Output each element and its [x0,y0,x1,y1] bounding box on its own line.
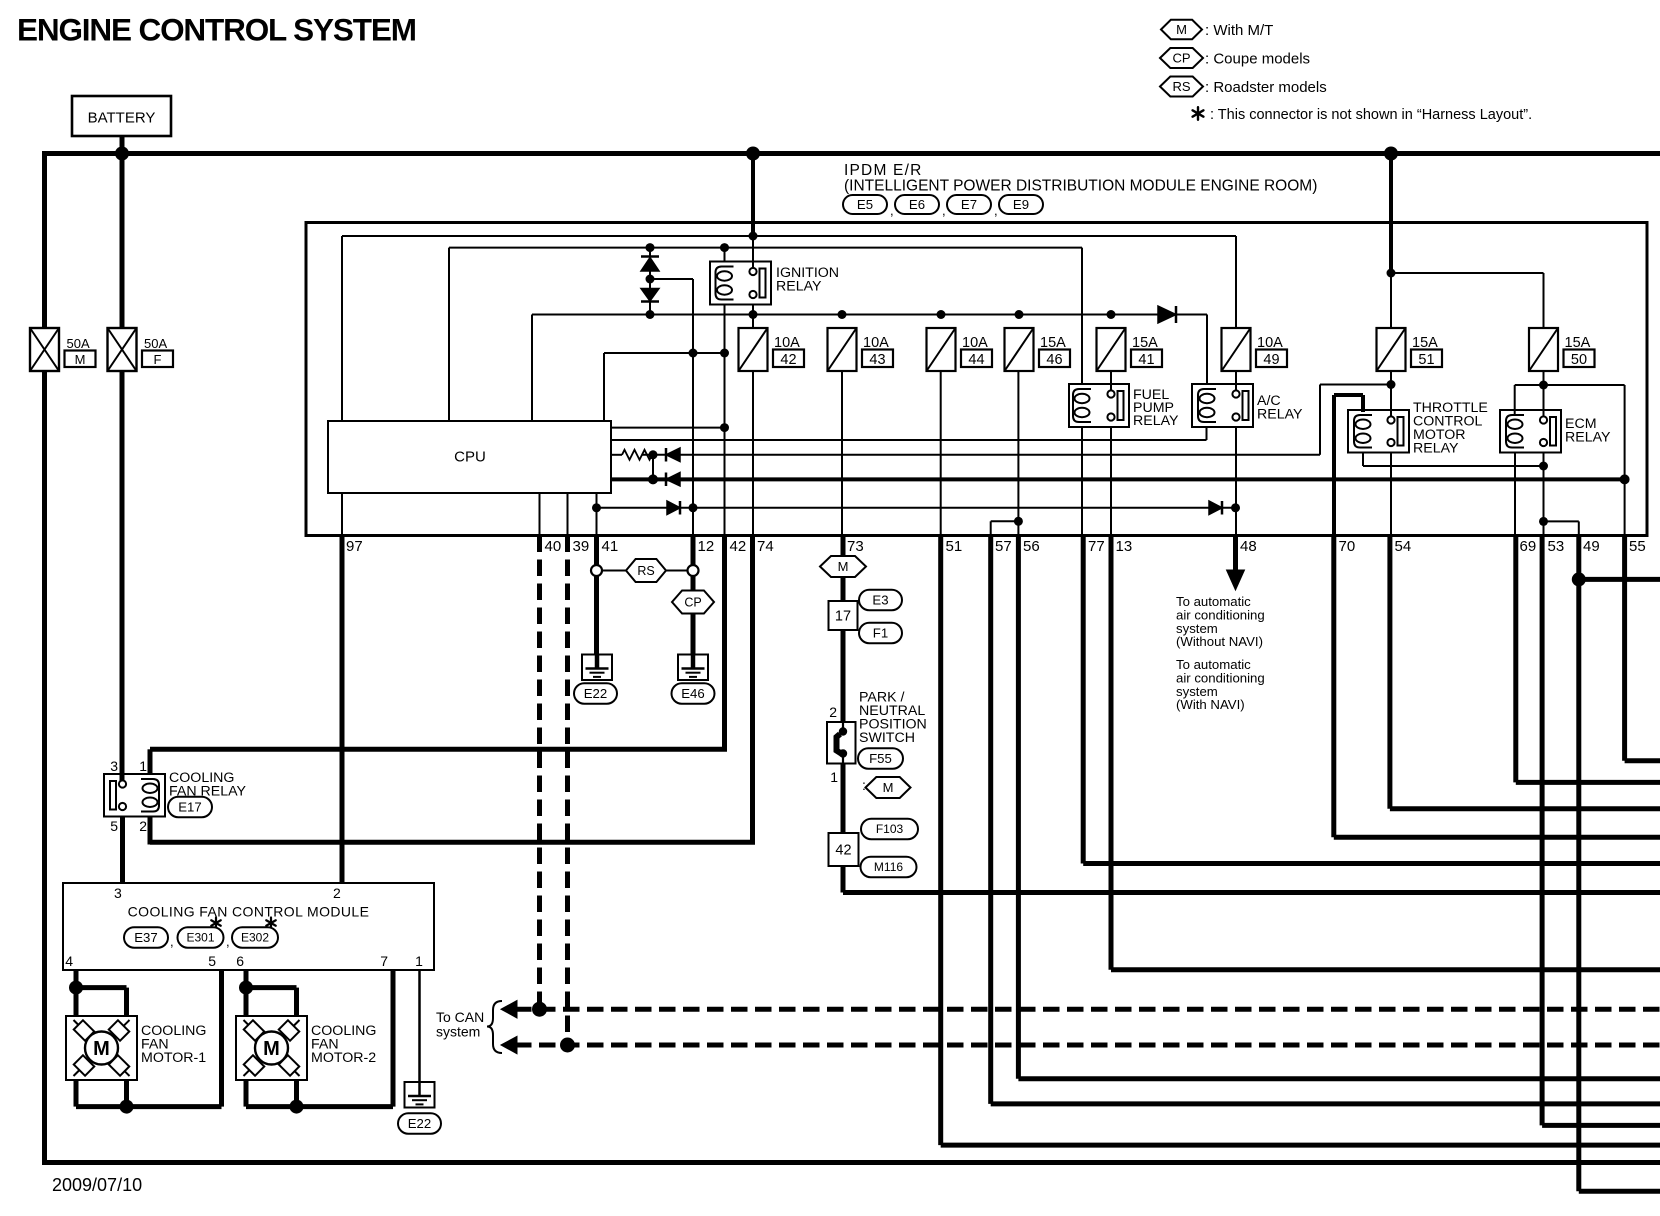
node row A junction pin42 column [720,423,729,432]
wire line2 horizontal y=247.6 [449,247,1082,249]
svg-text:,: , [942,203,946,218]
wire CPU row C with resistor [611,454,622,456]
svg-text:57: 57 [995,538,1012,555]
svg-text:system: system [436,1024,480,1040]
wire bottom loop to right edge [42,1160,1660,1165]
wire pin 42 to cooling fan relay coil top [722,536,727,750]
cooling fan motor 2 box [236,1016,307,1080]
throttle control motor relay box [1348,410,1409,453]
wire module pin 1 to ground E22 (lower) [418,970,421,1082]
svg-text:50: 50 [1571,352,1587,368]
fuse 49 10A [1222,328,1251,371]
wire pin55 column from fuse50 line [1624,385,1626,536]
svg-text:97: 97 [346,538,363,555]
wire line2 left drop to CPU top [448,248,450,421]
svg-text:RELAY: RELAY [1133,413,1179,429]
legend hexagon M [1161,20,1202,40]
svg-text:F103: F103 [876,822,904,836]
ignition relay box [710,262,771,305]
wire pin 13 drop and right [1109,536,1114,970]
svg-text:17: 17 [835,609,851,625]
svg-text:49: 49 [1263,352,1279,368]
node line3 junction fuse43 [838,310,847,319]
svg-text:SWITCH: SWITCH [859,730,915,746]
node line3 junction fuse41 [1107,310,1116,319]
svg-text:41: 41 [602,538,619,555]
CAN line lower dashed [515,1043,1660,1048]
diode on row D (pointing left) [666,473,680,487]
IPDM E/R box [306,223,1647,536]
svg-text:IPDM E/R: IPDM E/R [844,162,923,179]
wire pin 40 dashed CAN [537,536,542,1010]
svg-text:70: 70 [1339,538,1356,555]
node row D junction right at pin 55 column [1620,474,1630,484]
svg-text:2009/07/10: 2009/07/10 [52,1175,142,1195]
connector E6 [895,195,939,214]
CAN line upper arrow [501,1001,517,1019]
wire line2 right drop to fuel pump relay coil [1081,248,1083,384]
wire CPU pin41 stub to row E [596,493,598,536]
CAN line upper dashed [515,1007,1660,1012]
svg-text:50A: 50A [67,336,90,351]
svg-text:54: 54 [1395,538,1412,555]
wire ECM coil feed [1514,385,1516,416]
wire battery drop to fusible link F [120,154,125,329]
svg-text:E7: E7 [961,197,977,212]
svg-text:M116: M116 [874,860,903,874]
svg-text:44: 44 [968,352,984,368]
CAN line lower arrow [501,1036,517,1054]
svg-text:E46: E46 [681,686,704,701]
node junction fuse50 branch [1387,269,1396,278]
connector F55 [858,748,903,769]
wire A/C relay contact bottom to pin 48 [1235,427,1237,536]
fuse 46 15A [1005,328,1034,371]
svg-text:BATTERY: BATTERY [88,110,156,127]
wire pin 49 drop with branch [1576,536,1581,1192]
svg-text:E22: E22 [584,686,607,701]
svg-text:51: 51 [1418,352,1434,368]
wire pin 57 drop and right [988,536,993,1104]
connector F1 [859,623,902,644]
wire ECM contact feed [1543,385,1545,417]
svg-text:M: M [75,352,86,367]
diode on line3 (to A/C relay coil) [1158,306,1176,323]
wire pin 41 to ground E22 [594,536,599,566]
svg-text:12: 12 [698,538,715,555]
svg-text:7: 7 [380,953,388,969]
wire ECM coil bottom to pin 69 [1514,453,1516,536]
connector E9 [999,195,1043,214]
node line1 junction x=753 [749,232,758,241]
wire line3 left drop to CPU top [531,315,533,422]
svg-text:74: 74 [757,538,774,555]
wire ignition relay contact top pin [752,236,754,268]
wire ignition relay contact bottom to fuse 42 [752,305,754,329]
node line2 junction diode chain top [646,243,655,252]
node junction throttle coil line [1539,462,1548,471]
svg-text:RELAY: RELAY [1257,407,1303,423]
A/C relay box [1192,384,1253,427]
svg-text:49: 49 [1583,538,1600,555]
connector joint on pin 41 wire [591,565,602,576]
connector E7 [947,195,991,214]
svg-text:43: 43 [869,352,885,368]
svg-text:MOTOR-1: MOTOR-1 [141,1050,206,1066]
legend note asterisk [1197,107,1199,120]
svg-text:(Without NAVI): (Without NAVI) [1176,634,1263,649]
svg-text:,: , [890,203,894,218]
svg-text:3: 3 [114,885,122,901]
connector F103 [861,819,918,840]
svg-text:CPU: CPU [454,449,486,466]
cooling fan motor 2 symbol [244,1020,258,1034]
node CAN junction pin 40 [532,1002,547,1017]
wire CPU pin 97 stub [341,493,343,536]
node bus junction at throttle/ecm feed [1384,147,1398,161]
svg-text:2: 2 [139,818,147,834]
svg-text:M: M [1176,22,1187,37]
svg-text:6: 6 [236,953,244,969]
diode chain upper diode (cathode up) [649,248,651,256]
svg-text:50A: 50A [144,336,167,351]
svg-text:E3: E3 [872,593,888,608]
node y353 junction pin12 column [689,349,698,358]
svg-text:46: 46 [1046,352,1062,368]
connector E5 [843,195,887,214]
wire fuel pump relay coil bottom to pin 77 [1081,427,1083,536]
wire fuse 49 output to A/C relay contact [1235,371,1237,390]
ground E22 (upper) [582,655,612,681]
wire fuse 43 output to pin 73 [841,371,843,536]
svg-text:41: 41 [1138,352,1154,368]
power bus [42,151,1660,156]
wire pin 12 to CP hexagon and ground E46 [691,536,696,566]
svg-text:5: 5 [208,953,216,969]
svg-text:2: 2 [333,885,341,901]
node junction pin 49 tap [1539,517,1548,526]
svg-text:CP: CP [1172,51,1190,66]
wire motor 2 to module pin 7 [244,1080,249,1107]
wire connector 17 to park/neutral switch [841,630,846,722]
svg-text:1: 1 [139,758,147,774]
svg-text:53: 53 [1548,538,1565,555]
svg-text:RS: RS [637,564,654,578]
wire pin 55 drop and right [1622,536,1627,761]
diode on row E (pointing right) [667,501,680,515]
wire diode chain mid branch to pin12 column [650,278,693,280]
wire line1 left drop to CPU top [341,236,343,421]
svg-text:: Coupe models: : Coupe models [1205,51,1310,68]
wire fuse 50 output line y=385 [1543,371,1545,385]
hexagon RS link [602,570,627,572]
svg-text:RELAY: RELAY [1413,441,1459,457]
wire ignition relay coil bottom [724,305,726,354]
wire fusible link F down to cooling fan relay pin 3 [120,371,125,781]
cooling fan relay box [104,774,165,817]
svg-text:E9: E9 [1013,197,1029,212]
wire fuel pump relay contact bottom to pin 13 [1110,427,1112,536]
wire motor 1 to module pin 5 [74,1080,79,1107]
svg-text:F1: F1 [873,626,888,641]
svg-text:13: 13 [1116,538,1133,555]
resistor on row C [622,450,652,460]
svg-text:E302: E302 [241,931,269,945]
cooling fan motor 1 symbol [74,1020,88,1034]
svg-text:E5: E5 [857,197,873,212]
wire line1 horizontal y=236 [342,235,1236,237]
wire to connector square 17 [841,577,846,601]
svg-text:3: 3 [110,758,118,774]
wire pin 69 drop and right [1513,536,1518,783]
svg-text:,: , [170,934,174,949]
connector M116 [861,857,917,878]
wire pin 39 dashed CAN [565,536,570,1046]
wire pin57 branch [991,520,1019,522]
cooling fan motor 1 box [66,1016,137,1080]
svg-text:,: , [226,934,230,949]
svg-text::: : [862,777,866,793]
svg-text:(INTELLIGENT POWER DISTRIBUTIO: (INTELLIGENT POWER DISTRIBUTION MODULE E… [844,178,1317,195]
svg-text:5: 5 [110,818,118,834]
connector square 17 [829,601,858,630]
node bus-battery junction [115,147,129,161]
connector E3 [859,590,902,611]
svg-text:,: , [994,203,998,218]
wire pin 73 segment to M hexagon [841,536,846,558]
svg-text:: Roadster models: : Roadster models [1205,79,1327,96]
fuse 44 10A [927,328,956,371]
svg-text:2: 2 [829,704,837,720]
connector joint on pin 12 wire [688,565,699,576]
wire pin 54 drop and right [1387,536,1392,809]
node bus junction at ignition feed [746,147,760,161]
connector E46 [672,683,715,704]
diode on row E right (to pin 48) [1209,501,1222,515]
svg-text:M: M [838,559,849,574]
fuse 42 10A [739,328,768,371]
node row E junction pin12 [689,503,698,512]
svg-text:E17: E17 [178,800,201,815]
node row D junction left [648,474,658,484]
wire pin 74 to cooling fan relay coil bottom [750,536,755,843]
svg-text:39: 39 [573,538,590,555]
wire module pin 6 to motor 2 [244,970,249,1016]
connector E22 (lower) [398,1113,441,1134]
wire pin 51 drop and right [938,536,943,1146]
node CAN junction pin 39 [560,1038,575,1053]
svg-text:42: 42 [835,843,851,859]
svg-text:MOTOR-2: MOTOR-2 [311,1050,376,1066]
svg-text:RS: RS [1172,79,1190,94]
wire fuse51 junction to row C corner [1320,384,1391,386]
svg-text:E22: E22 [408,1116,431,1131]
battery box [72,96,171,136]
wire fuse 46 output to pin 56 [1017,371,1019,536]
fuse 51 15A [1377,328,1406,371]
svg-text:M: M [263,1038,280,1060]
cooling fan control module box [63,883,434,970]
wire cooling fan relay contact bottom to module pin 3 [120,817,125,884]
svg-text:F55: F55 [869,751,892,766]
wire branch to fuse 50 [1391,272,1544,274]
wire battery to bus [120,136,125,154]
hexagon M on pin 73 wire [820,556,866,577]
wire row C-D link [652,455,654,480]
wire pin 53 drop and right [1540,536,1545,1126]
connector E301 with asterisk [215,918,217,929]
wire fuse 42 output to pin 74 [752,371,754,536]
wire ignition relay coil top pin [724,248,726,262]
wire fuse 41 output to fuel pump relay contact [1110,371,1112,390]
node diode chain mid junction [646,275,655,284]
svg-text:42: 42 [780,352,796,368]
svg-text:77: 77 [1088,538,1105,555]
fusible link F 50A [108,328,137,371]
svg-text:M: M [883,780,894,795]
svg-text:1: 1 [830,769,838,785]
connector E37 [124,927,168,948]
wire y=353 horizontal to CPU top [604,352,725,354]
svg-text:F: F [154,352,162,367]
svg-text:: With M/T: : With M/T [1205,22,1273,39]
node line3 junction fuse42/ignition contact [749,310,758,319]
wire throttle relay coil feed elbow from pin 70 [1332,395,1336,536]
svg-text:ENGINE CONTROL SYSTEM: ENGINE CONTROL SYSTEM [17,12,416,48]
svg-text:40: 40 [545,538,562,555]
svg-text:51: 51 [946,538,963,555]
svg-text:RELAY: RELAY [1565,430,1611,446]
wire park/neutral switch to connector square 42 [841,764,846,834]
wire throttle relay contact bottom to pin 54 [1390,453,1392,536]
wire pin12 column inside box [692,353,694,536]
wire ignition coil bottom to pin 42 exit [724,353,726,536]
wire fuse51 feed [1390,273,1392,328]
svg-text:4: 4 [65,953,73,969]
node line3 junction fuse46 [1015,310,1024,319]
svg-text:E6: E6 [909,197,925,212]
wire module pin 4 to motor 1 [74,970,79,1016]
diode chain lower diode (cathode down) [649,279,651,288]
wire A/C relay coil bottom to row B [1206,427,1208,440]
wire pin 48 to A/C arrow [1233,536,1238,573]
legend hexagon CP [1160,48,1203,68]
wire line3 horizontal y=314.5 [532,314,1207,316]
svg-text:42: 42 [730,538,747,555]
wire CPU pin 40 stub [539,493,541,536]
wire CPU row A [611,427,725,429]
wire CPU row B to A/C coil [611,439,1207,441]
svg-text:: This connector is not shown: : This connector is not shown in “Harnes… [1210,107,1532,123]
svg-text:COOLING FAN CONTROL MODULE: COOLING FAN CONTROL MODULE [128,904,370,920]
wire pin 77 drop and right [1081,536,1086,864]
wire pin 70 drop and right [1331,536,1336,838]
wire CPU row E [597,507,1236,509]
node row E junction pin48 column [1231,503,1240,512]
wire line1 right drop to fuse 49 [1235,236,1237,328]
connector E17 [168,797,212,818]
fuel pump relay box [1069,384,1129,427]
node pin57 tap junction [1014,517,1023,526]
svg-text:RELAY: RELAY [776,279,822,295]
CPU box [328,421,611,493]
wire pin57 tap from fuse46 column [940,371,942,536]
svg-text:69: 69 [1520,538,1537,555]
fuse 43 10A [828,328,857,371]
wire connector 42 down and right to edge [841,866,846,893]
ground E22 (lower) [405,1082,435,1108]
fuse 41 15A [1097,328,1126,371]
park/neutral position switch box [827,722,856,764]
node fuse51 output junction [1387,380,1396,389]
wire pin 56 drop and right [1016,536,1021,1079]
wire CPU row D thick [611,477,1625,481]
svg-text:48: 48 [1240,538,1257,555]
wire ECM contact bottom to pin 53 [1543,453,1545,536]
svg-text:CP: CP [684,595,701,609]
connector square 42 [829,833,859,866]
diode on row C (pointing left) [666,448,680,462]
svg-text:E301: E301 [186,931,214,945]
node y353 junction ignition coil bottom [720,349,729,358]
wire fusible link M down to bottom loop [42,371,47,1163]
wire fuse 51 output to throttle relay contact [1390,371,1392,417]
fusible link M 50A [30,328,59,371]
ECM relay box [1500,410,1561,453]
fuse 50 15A [1529,328,1558,371]
connector E22 (upper) [574,683,617,704]
wire bus drop to line1 (ignition relay contact feed) [751,154,755,237]
node line3 junction fuse44 [937,310,946,319]
connector E302 with asterisk [270,918,272,929]
wire CPU pin 39 stub [567,493,569,536]
wire throttle relay coil bottom to ECM contact column [1362,453,1364,467]
node row E junction pin41 [592,503,601,512]
node row C junction [649,450,658,459]
wire line3 right drop to A/C relay coil [1206,315,1208,385]
node line3 junction diode chain bottom [646,310,655,319]
brace for CAN system [487,1001,502,1053]
svg-text:55: 55 [1629,538,1646,555]
svg-text:M: M [93,1038,110,1060]
wire left drop from bus to fusible link M [42,154,47,329]
wire pin 97 to cooling fan control module pin 2 [340,536,345,884]
svg-text:E37: E37 [134,930,157,945]
svg-text:73: 73 [847,538,864,555]
node line2 junction ignition coil top [720,243,729,252]
wire bus drop to fuse 51 area [1389,154,1393,274]
hexagon CP on pin 12 wire [672,591,714,614]
ground E46 [678,655,708,681]
svg-text:56: 56 [1023,538,1040,555]
wire pin 49 tap [1544,520,1579,522]
svg-text:1: 1 [415,953,423,969]
legend hexagon RS [1160,77,1203,97]
svg-text:(With NAVI): (With NAVI) [1176,697,1245,712]
park/neutral switch symbol [842,722,844,730]
